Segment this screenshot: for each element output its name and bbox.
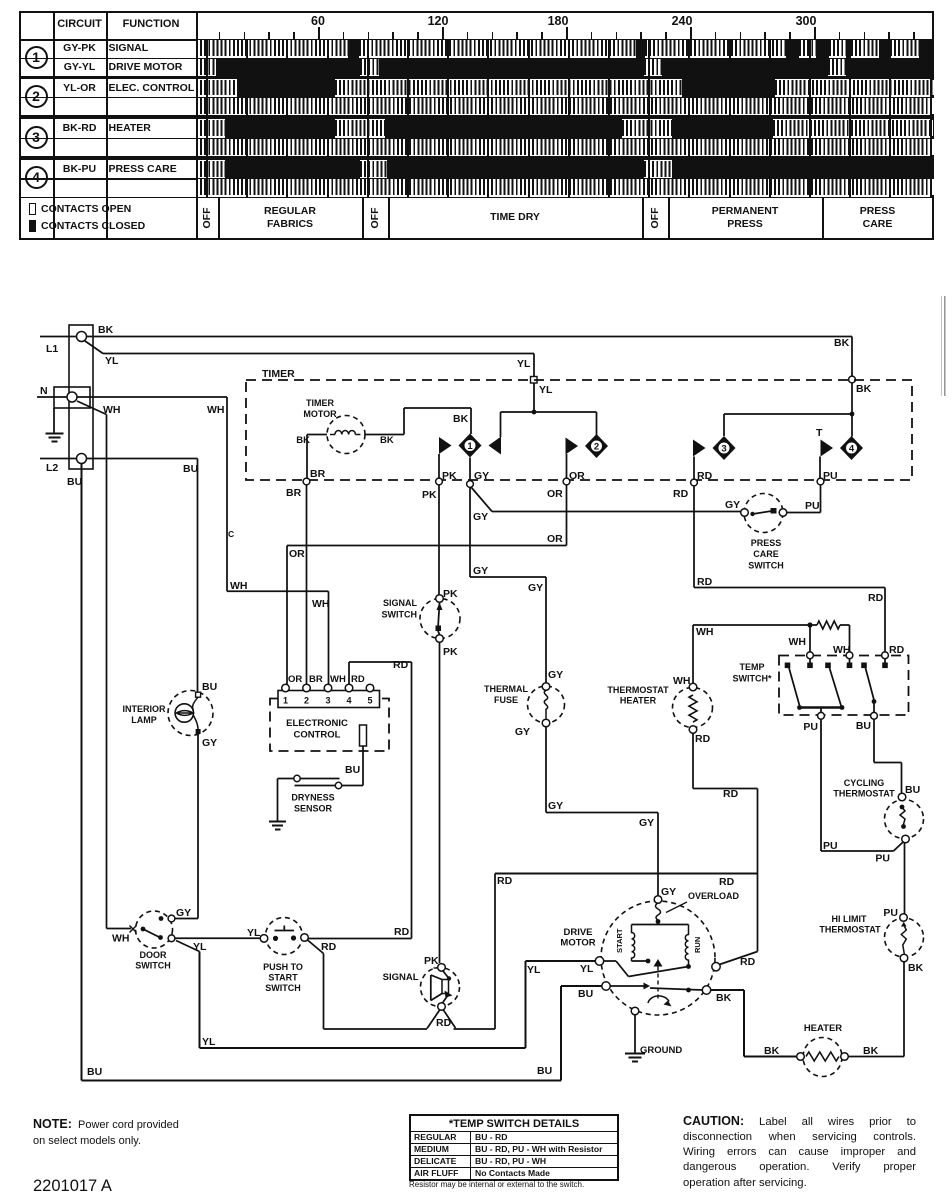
svg-text:1: 1 [283, 696, 288, 706]
circled section numbers 1-4 [25, 46, 48, 69]
wire BK timer motor to cam 1 [365, 434, 404, 436]
svg-text:WH: WH [312, 598, 330, 610]
wire RD signal to motor RD line [427, 1010, 440, 1029]
dryness sensor [294, 775, 300, 781]
wire PU from cam 4 to press care switch [819, 457, 821, 480]
wire RD from cam 3 to temp switch [693, 457, 695, 480]
chart row borders [19, 39, 934, 41]
svg-text:N: N [40, 385, 48, 397]
svg-text:MOTOR: MOTOR [560, 938, 595, 949]
svg-text:START: START [268, 973, 298, 983]
svg-text:RD: RD [889, 644, 905, 656]
svg-text:SWITCH: SWITCH [748, 561, 784, 571]
temp switch details table [409, 1114, 619, 1181]
caution text [683, 1113, 916, 1191]
svg-text:PK: PK [442, 470, 457, 482]
svg-text:WH: WH [696, 626, 714, 638]
svg-text:PU: PU [883, 907, 898, 919]
cycle segment labels [196, 198, 218, 238]
svg-text:BK: BK [453, 413, 469, 425]
svg-text:BK: BK [296, 435, 310, 446]
terminal N [37, 396, 67, 398]
svg-text:GY: GY [639, 817, 654, 829]
svg-text:THERMAL: THERMAL [484, 684, 528, 694]
wire GY branch to thermal fuse [469, 487, 471, 577]
svg-text:RD: RD [868, 592, 884, 604]
svg-text:RD: RD [697, 470, 713, 482]
node YL junction in timer [532, 410, 537, 415]
wire RD thermostat heater to drive motor [692, 733, 694, 788]
door switch [136, 911, 173, 948]
svg-text:GY: GY [548, 800, 563, 812]
svg-text:GY: GY [176, 907, 191, 919]
svg-text:4: 4 [849, 443, 855, 454]
wire WH from N to electronic control pin 3 [77, 396, 227, 398]
wire BR timer motor to electronic control pin 2 [307, 434, 327, 436]
svg-text:BK: BK [856, 383, 872, 395]
svg-text:WH: WH [673, 675, 691, 687]
temp switch blades [789, 668, 800, 706]
svg-text:RD: RD [497, 875, 513, 887]
svg-text:PK: PK [443, 646, 458, 658]
heater [803, 1038, 842, 1077]
ground at neutral [53, 408, 55, 433]
svg-text:YL: YL [247, 927, 261, 939]
svg-text:SWITCH: SWITCH [382, 610, 418, 620]
timer cam switch 1 [439, 437, 452, 454]
svg-text:PU: PU [823, 470, 838, 482]
wire GY diagonal to press care switch [471, 487, 492, 512]
motor run winding [685, 925, 688, 967]
svg-text:GY: GY [515, 726, 530, 738]
svg-text:OR: OR [547, 488, 563, 500]
thermal fuse [528, 686, 565, 723]
timer cam switch 4 [821, 440, 834, 457]
temp switch heater resistor [817, 621, 840, 629]
svg-text:START: START [615, 928, 624, 953]
hi limit thermostat [885, 918, 924, 957]
drive motor dashed circle [601, 901, 715, 1015]
svg-text:3: 3 [325, 696, 330, 706]
svg-text:GY: GY [661, 886, 676, 898]
svg-text:C: C [228, 529, 234, 539]
svg-text:TEMP: TEMP [739, 662, 764, 672]
electronic control pins [282, 684, 290, 692]
electronic control dashed box [270, 699, 389, 752]
timer dashed enclosure [246, 380, 912, 480]
svg-text:BK: BK [834, 337, 850, 349]
motor centrifugal switch blade [616, 961, 629, 977]
svg-text:PU: PU [823, 840, 838, 852]
svg-text:RD: RD [673, 488, 689, 500]
svg-text:BR: BR [309, 674, 323, 685]
circuit and function row labels [0, 43, 160, 54]
svg-text:BU: BU [537, 1065, 552, 1077]
svg-text:RD: RD [436, 1017, 452, 1029]
svg-text:YL: YL [105, 355, 119, 367]
wire BK drive motor to heater [711, 989, 744, 991]
svg-text:LAMP: LAMP [131, 715, 157, 725]
BR crossing circle at timer edge [303, 478, 310, 485]
timeline ticks [219, 32, 221, 40]
timer sequence chart [19, 11, 934, 241]
wire WH to thermostat heater and temp switch [692, 625, 694, 684]
svg-text:BU: BU [578, 988, 593, 1000]
svg-text:THERMOSTAT: THERMOSTAT [833, 789, 895, 799]
wire WH from N down left side to door switch [77, 401, 107, 415]
svg-text:WH: WH [789, 636, 807, 648]
chart column dividers [53, 11, 55, 241]
svg-text:RUN: RUN [693, 937, 702, 953]
wire YL door switch to push-to-start switch [175, 937, 260, 939]
svg-text:DOOR: DOOR [140, 950, 168, 960]
svg-text:SENSOR: SENSOR [294, 804, 333, 814]
svg-text:CONTROL: CONTROL [294, 730, 341, 741]
svg-text:DRIVE: DRIVE [563, 927, 592, 938]
svg-text:BK: BK [716, 992, 732, 1004]
motor YL terminal [595, 957, 603, 965]
svg-text:HEATER: HEATER [620, 696, 657, 706]
motor RD terminal [712, 963, 720, 971]
terminal L2 [40, 458, 76, 460]
svg-text:BU: BU [856, 720, 871, 732]
svg-text:RD: RD [394, 926, 410, 938]
wire PK signal switch to signal [439, 643, 441, 964]
wire dryness sensor to ground [278, 778, 294, 780]
thermostat heater [673, 688, 713, 728]
wire BU from L2 down to drive motor [81, 464, 83, 1081]
svg-text:OVERLOAD: OVERLOAD [688, 891, 740, 901]
svg-text:MOTOR: MOTOR [303, 409, 337, 419]
pattern grid lines [206, 39, 208, 197]
svg-text:SIGNAL: SIGNAL [383, 598, 418, 608]
wire GY to drive motor overload [657, 813, 659, 898]
svg-text:RD: RD [393, 659, 409, 671]
svg-text:PU: PU [803, 721, 818, 733]
ground symbol at motor [625, 1053, 645, 1055]
svg-text:OR: OR [569, 470, 585, 482]
motor start winding [657, 922, 659, 925]
svg-text:CARE: CARE [753, 549, 779, 559]
temp switch dashed box [779, 656, 909, 716]
timer cam switch 2 [566, 438, 579, 455]
motor BU terminal and contact [602, 982, 610, 990]
svg-text:RD: RD [697, 576, 713, 588]
wire BK junction to cam 3 [724, 413, 852, 415]
svg-text:BU: BU [345, 764, 360, 776]
wire PU cycling thermostat blade to hi-limit thermostat [894, 842, 903, 851]
svg-text:PU: PU [805, 500, 820, 512]
BK crossing circle at timer edge [849, 376, 856, 383]
svg-text:YL: YL [539, 384, 553, 396]
svg-text:GY: GY [548, 669, 563, 681]
svg-text:3: 3 [721, 443, 726, 454]
wire BK hi-limit to heater [903, 962, 905, 1057]
svg-text:BU: BU [202, 681, 217, 693]
svg-text:SWITCH: SWITCH [135, 961, 171, 971]
svg-text:T: T [816, 427, 823, 439]
svg-text:BK: BK [98, 324, 114, 336]
wire BU from L2 to interior lamp [87, 458, 198, 460]
svg-text:GY: GY [474, 470, 489, 482]
svg-text:ELECTRONIC: ELECTRONIC [286, 718, 348, 729]
wire YL to cam 1 right arm [501, 411, 535, 413]
wire RD push-to-start to signal and drive motor [308, 940, 324, 954]
svg-text:BK: BK [380, 435, 394, 446]
svg-text:BU: BU [87, 1066, 102, 1078]
svg-text:BU: BU [183, 463, 198, 475]
wire BU resistor to dryness sensor [362, 746, 364, 786]
part number [33, 1177, 112, 1196]
YL crossing square at timer edge [531, 377, 538, 384]
svg-text:WH: WH [330, 674, 346, 685]
wire GY lamp to door switch [197, 733, 199, 919]
svg-text:TIMER: TIMER [306, 398, 334, 408]
svg-text:YL: YL [193, 941, 207, 953]
overload protector [654, 896, 662, 904]
svg-text:YL: YL [202, 1036, 216, 1048]
svg-text:BK: BK [764, 1045, 780, 1057]
timer motor [327, 416, 365, 454]
svg-text:BK: BK [908, 962, 924, 974]
contact state pattern rows [196, 40, 348, 56]
svg-text:PK: PK [422, 489, 437, 501]
note text [33, 1115, 273, 1150]
svg-text:RD: RD [351, 674, 365, 685]
svg-text:GY: GY [473, 511, 488, 523]
svg-text:SIGNAL: SIGNAL [383, 972, 419, 983]
svg-text:DRYNESS: DRYNESS [291, 793, 334, 803]
wire BK from L1 to timer cam 4 [87, 336, 853, 338]
wire PU temp switch to cycling thermostat and hi-limit [820, 719, 822, 851]
wire OR from cam 2 to electronic control pin 1 [566, 454, 568, 479]
svg-text:PUSH TO: PUSH TO [263, 962, 303, 972]
svg-text:OR: OR [288, 674, 302, 685]
svg-text:TIMER: TIMER [262, 368, 295, 380]
svg-text:L1: L1 [46, 343, 58, 355]
svg-text:RD: RD [723, 788, 739, 800]
wire PK from cam 1 to signal switch [438, 454, 440, 595]
svg-text:WH: WH [207, 404, 225, 416]
svg-text:RD: RD [719, 876, 735, 888]
svg-text:YL: YL [580, 963, 594, 975]
svg-text:GY: GY [528, 582, 543, 594]
svg-text:BU: BU [905, 784, 920, 796]
wire GY from cam 1 bottom [469, 458, 471, 482]
table footnote [409, 1180, 621, 1189]
svg-text:GY: GY [725, 499, 740, 511]
svg-text:PK: PK [424, 955, 439, 967]
legend cycle segment dividers [218, 197, 220, 239]
svg-text:GY: GY [473, 565, 488, 577]
svg-text:BU: BU [67, 476, 82, 488]
svg-text:2: 2 [594, 441, 599, 452]
svg-text:WH: WH [112, 933, 130, 945]
wire RD from pin 4 to push-to-start switch [348, 662, 350, 684]
svg-text:INTERIOR: INTERIOR [122, 704, 166, 714]
svg-text:4: 4 [346, 696, 351, 706]
temp switch common bus [799, 706, 843, 709]
svg-text:PU: PU [875, 853, 890, 865]
resistor in electronic control [360, 725, 367, 746]
wire YL to cam 2 [534, 411, 597, 413]
svg-text:PK: PK [443, 588, 458, 600]
press care switch [744, 494, 783, 533]
interior lamp [168, 691, 213, 736]
cycling thermostat [885, 800, 924, 839]
svg-text:OR: OR [289, 548, 305, 560]
svg-text:OR: OR [547, 533, 563, 545]
svg-text:HEATER: HEATER [804, 1023, 842, 1034]
svg-text:PRESS: PRESS [751, 538, 782, 548]
svg-text:BR: BR [286, 487, 302, 499]
svg-text:WH: WH [230, 580, 248, 592]
legend: contacts open/closed [29, 203, 36, 215]
svg-text:YL: YL [517, 358, 531, 370]
svg-text:GROUND: GROUND [640, 1045, 682, 1056]
svg-text:5: 5 [367, 696, 372, 706]
svg-text:CYCLING: CYCLING [844, 778, 885, 788]
svg-text:RD: RD [695, 733, 711, 745]
scan artifact right edge [941, 296, 948, 396]
svg-text:GY: GY [202, 737, 217, 749]
ground at dryness sensor [269, 821, 286, 823]
power cord terminal block [69, 325, 93, 469]
svg-text:HI LIMIT: HI LIMIT [832, 914, 867, 924]
motor ground terminal [631, 1007, 639, 1015]
push to start switch [266, 918, 303, 955]
electronic control pin header [278, 691, 380, 708]
svg-text:L2: L2 [46, 462, 58, 474]
wire BU temp switch to cycling thermostat [873, 719, 875, 762]
svg-text:BK: BK [863, 1045, 879, 1057]
svg-text:RD: RD [321, 941, 337, 953]
temp switch terminals [807, 652, 814, 659]
svg-text:BR: BR [310, 468, 326, 480]
motor BK terminal [702, 986, 710, 994]
svg-text:1: 1 [467, 441, 473, 452]
svg-text:2: 2 [304, 696, 309, 706]
signal buzzer [421, 968, 460, 1007]
terminal L1 [40, 336, 76, 338]
signal switch [420, 599, 460, 639]
node BK junction in timer [850, 412, 855, 417]
svg-text:RD: RD [740, 956, 756, 968]
timer cam switch 3 [693, 440, 706, 457]
svg-text:THERMOSTAT: THERMOSTAT [819, 925, 881, 935]
neutral terminal box [54, 387, 90, 408]
wire YL from L1 to timer [85, 341, 103, 354]
svg-text:FUSE: FUSE [494, 695, 518, 705]
chart header labels [0, 19, 160, 30]
svg-text:YL: YL [527, 964, 541, 976]
wire YL door switch down to drive motor [176, 941, 200, 952]
svg-text:SWITCH: SWITCH [265, 983, 301, 993]
svg-text:THERMOSTAT: THERMOSTAT [607, 685, 669, 695]
svg-text:SWITCH*: SWITCH* [733, 674, 772, 684]
svg-text:WH: WH [103, 404, 121, 416]
